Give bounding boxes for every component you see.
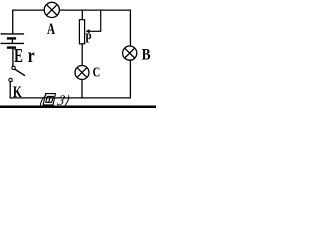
svg-text:A: A [47, 20, 55, 37]
wire lamp C to bottom [81, 79, 83, 98]
rheostat P body [79, 20, 84, 44]
lamp B [123, 46, 137, 60]
caption (图3) [38, 92, 72, 109]
wire right branch [129, 10, 131, 99]
svg-text:r: r [28, 44, 35, 66]
svg-text:C: C [93, 64, 101, 80]
svg-text:E: E [14, 44, 23, 66]
battery E (two cells) [1, 34, 25, 48]
wire rheostat to lamp C [81, 44, 83, 66]
lamp A [44, 2, 59, 17]
wire top [12, 9, 131, 11]
wire bottom [10, 97, 131, 99]
svg-text:P: P [85, 30, 91, 46]
label E r [14, 44, 35, 66]
wiper arrow P [86, 10, 101, 34]
svg-text:K: K [13, 84, 22, 101]
switch K [9, 66, 25, 82]
wire left battery branch [12, 10, 14, 67]
wire rheostat feeder [81, 10, 83, 21]
wire switch to bottom [9, 82, 11, 99]
lamp C [75, 66, 89, 80]
svg-text:B: B [142, 46, 151, 63]
bottom rule [0, 106, 156, 109]
